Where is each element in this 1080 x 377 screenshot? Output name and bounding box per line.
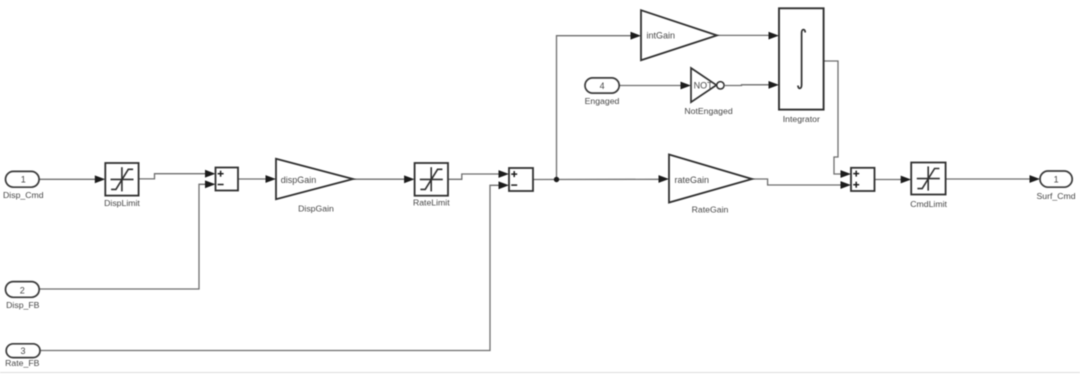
svg-text:CmdLimit: CmdLimit bbox=[910, 199, 947, 209]
svg-text:DispGain: DispGain bbox=[298, 203, 334, 213]
svg-text:3: 3 bbox=[20, 346, 25, 356]
svg-text:RateLimit: RateLimit bbox=[413, 198, 450, 208]
svg-text:Rate_FB: Rate_FB bbox=[5, 358, 39, 368]
svg-text:4: 4 bbox=[600, 81, 605, 91]
svg-text:RateGain: RateGain bbox=[692, 205, 729, 215]
svg-text:1: 1 bbox=[21, 175, 26, 185]
svg-text:NotEngaged: NotEngaged bbox=[684, 106, 732, 116]
svg-text:Disp_Cmd: Disp_Cmd bbox=[3, 190, 44, 200]
svg-text:2: 2 bbox=[20, 286, 25, 296]
svg-text:Disp_FB: Disp_FB bbox=[6, 300, 40, 310]
svg-text:Integrator: Integrator bbox=[783, 114, 820, 124]
svg-text:Surf_Cmd: Surf_Cmd bbox=[1036, 191, 1075, 201]
svg-text:rateGain: rateGain bbox=[675, 175, 710, 185]
svg-text:Engaged: Engaged bbox=[585, 96, 620, 106]
svg-text:intGain: intGain bbox=[647, 31, 676, 41]
svg-text:dispGain: dispGain bbox=[281, 175, 317, 185]
svg-text:NOT: NOT bbox=[694, 81, 714, 91]
svg-text:DispLimit: DispLimit bbox=[104, 198, 140, 208]
svg-text:1: 1 bbox=[1054, 174, 1059, 184]
